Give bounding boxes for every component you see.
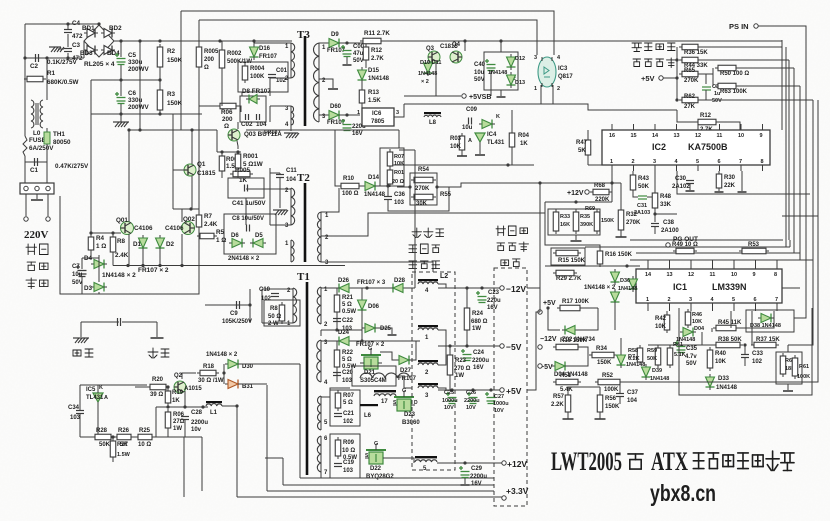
wire T3 rp base (318, 43, 320, 122)
wire R12 dn (365, 60, 367, 68)
winding L2-1 (418, 328, 438, 330)
label ya shuchu (497, 242, 529, 252)
svg-text:IC3: IC3 (558, 66, 568, 72)
svg-text:1W: 1W (173, 426, 182, 432)
inductor L6 (360, 373, 410, 378)
resistor R50 (715, 65, 739, 71)
capacitor C37 (616, 394, 624, 397)
wire D22 out (387, 458, 414, 463)
ground R60 (783, 390, 793, 392)
resistor R11 (360, 38, 384, 44)
wire IC5 top row (98, 384, 147, 386)
wire z02 bus (614, 305, 616, 330)
svg-text:B31: B31 (242, 384, 254, 390)
svg-text:R1: R1 (47, 70, 56, 77)
wire R48 dn (654, 208, 656, 222)
svg-text:D22: D22 (370, 466, 382, 472)
wire T1 pin7 down (320, 472, 322, 478)
diode BD3 (84, 46, 98, 55)
svg-text:C28: C28 (191, 410, 203, 416)
ground C11 (273, 210, 288, 215)
wire reg bus (676, 47, 678, 100)
wire r60 dn (787, 384, 789, 390)
svg-text:D15: D15 (368, 68, 380, 74)
wire y407 row (156, 406, 208, 408)
wire R21 col (336, 288, 338, 330)
wire C5 bot (120, 65, 122, 80)
svg-text:104: 104 (286, 177, 297, 183)
ground R57 (563, 418, 574, 420)
pin IC1-13 (669, 260, 671, 269)
resistor R06b (165, 409, 171, 431)
capacitor C04 (341, 119, 352, 131)
svg-text:D1: D1 (133, 241, 142, 248)
transistor Q02 (182, 222, 195, 235)
svg-text:D14: D14 (368, 175, 380, 181)
capacitor C11 (276, 175, 284, 178)
pin IC1-9 (755, 260, 757, 269)
wire y209 row (173, 208, 199, 210)
resistor R04 (509, 130, 515, 150)
wire Q3 e dn (435, 63, 437, 96)
wire T3 lp base (290, 43, 292, 78)
svg-text:R52: R52 (602, 373, 614, 379)
svg-text:104: 104 (256, 121, 267, 128)
wire bus v5 (799, 253, 801, 260)
wire D60 out (342, 114, 360, 116)
svg-text:D13: D13 (515, 80, 525, 86)
svg-text:C5: C5 (128, 52, 137, 59)
diode D33 (706, 374, 715, 390)
svg-text:1.5W: 1.5W (117, 452, 131, 458)
node C36 (386, 184, 389, 187)
wire R1 left (24, 58, 26, 100)
svg-text:Ω: Ω (224, 123, 229, 130)
resistor R002 (219, 47, 225, 71)
svg-text:R13: R13 (368, 90, 380, 96)
label zhiliu dian (496, 226, 528, 236)
svg-text:R01: R01 (394, 170, 404, 176)
box comparator network (679, 308, 812, 395)
diode D1 (139, 235, 148, 251)
capacitor C38 (651, 224, 659, 227)
wire C9-T1 (249, 289, 251, 323)
svg-text:2.7K: 2.7K (371, 56, 384, 62)
wire feedback line A (181, 11, 554, 55)
svg-text:+5V: +5V (641, 74, 655, 83)
wire R23 up (449, 346, 451, 355)
svg-text:R45 11K: R45 11K (718, 320, 742, 326)
wire R68 out (609, 191, 612, 193)
svg-text:D36: D36 (620, 278, 630, 284)
wire div gnd (575, 235, 577, 240)
wire C38 dn (654, 227, 656, 234)
terminal AC N (46, 217, 50, 221)
svg-text:R30: R30 (724, 175, 736, 181)
svg-text:R57: R57 (553, 394, 565, 400)
wire box left link (397, 186, 410, 188)
svg-text:ybx8.cn: ybx8.cn (650, 480, 716, 506)
resistor R33 (553, 209, 559, 234)
svg-text:R26: R26 (118, 428, 130, 434)
wire C2 row (25, 57, 84, 59)
svg-text:5: 5 (732, 297, 735, 303)
wire C5 lead (120, 41, 122, 57)
pin IC1-2b (669, 303, 671, 311)
terminal PS IN (754, 24, 758, 28)
wire C4 (67, 24, 69, 29)
wire D24 out (352, 340, 420, 342)
ground R56 (595, 418, 606, 420)
capacitor C3 (64, 49, 72, 52)
diode D30 (225, 360, 241, 369)
resistor R16 (597, 248, 603, 267)
wire D25 in (361, 328, 363, 341)
wire R002 dn (221, 68, 223, 106)
core L0 a (35, 103, 37, 125)
wire gnd stub (120, 114, 122, 122)
box R07 (330, 390, 360, 426)
capacitor C04b (257, 114, 260, 120)
inductor L1 (206, 404, 222, 406)
wire C29 dn (464, 478, 466, 484)
node R27 top (111, 435, 114, 438)
wire c36 return (388, 187, 449, 211)
wire T2 rp base (320, 212, 322, 262)
core L2e (415, 456, 437, 458)
svg-text:5 Ω: 5 Ω (343, 400, 353, 406)
svg-text:L8: L8 (429, 120, 437, 126)
winding T3 p2 (291, 106, 294, 125)
resistor R52 (595, 379, 623, 385)
wire T1 s3 base (320, 396, 322, 430)
resistor R63 (715, 83, 739, 89)
capacitor C7 (76, 265, 87, 277)
svg-text:100 Ω: 100 Ω (342, 191, 359, 197)
svg-text:R50 100 Ω: R50 100 Ω (720, 71, 749, 77)
wire conn gnd (36, 194, 38, 199)
resistor R27 (110, 438, 116, 460)
node c25 (450, 388, 453, 391)
wire L2-2 join (438, 346, 446, 365)
resistor R8 (110, 234, 116, 255)
svg-text:BYQ28G2: BYQ28G2 (366, 474, 394, 480)
svg-text:1K: 1K (172, 398, 180, 404)
svg-text:103: 103 (342, 378, 353, 384)
wire T3 pin3 drop (269, 106, 271, 122)
diode BD2 (101, 29, 115, 38)
thermistor TH1 lead (46, 128, 48, 132)
svg-text:1W: 1W (455, 373, 464, 379)
label shuru (27, 262, 48, 270)
terminal PG OUT (666, 243, 670, 247)
svg-text:1N4148: 1N4148 (650, 376, 669, 382)
core L2c (418, 360, 438, 362)
capacitor C01 (268, 75, 276, 78)
svg-text:100K: 100K (250, 74, 265, 80)
winding L2-3 (418, 386, 438, 388)
wire R002 up (221, 41, 223, 50)
wire rail drop x140 (139, 41, 141, 130)
svg-text:5 Ω: 5 Ω (342, 357, 352, 363)
pin IC1-7b (776, 303, 778, 311)
pin IC1-10 (733, 260, 735, 269)
wire R32 up (620, 183, 622, 210)
diode D28 (390, 284, 406, 293)
svg-text:16: 16 (609, 133, 615, 139)
svg-text:T3: T3 (297, 29, 310, 41)
wire R06 to Q03 base (239, 106, 241, 112)
svg-text:10K: 10K (715, 359, 727, 365)
wire Q02 e down (181, 234, 183, 266)
wire R17 loop (548, 308, 560, 330)
svg-text:R09: R09 (343, 440, 355, 446)
pin IC1-3b (690, 303, 692, 311)
wire Q2 e dn (184, 391, 186, 407)
resistor R46 (685, 309, 691, 328)
wire R47 up (587, 130, 589, 140)
svg-text:C10: C10 (259, 287, 271, 293)
svg-text:R002: R002 (227, 51, 242, 57)
wire 5vsb (404, 95, 461, 97)
svg-text:A1015: A1015 (184, 386, 202, 392)
wire C30 dn (689, 184, 691, 190)
wire s1 top (321, 287, 336, 289)
winding T1 s4 (317, 436, 321, 472)
node r17 (546, 306, 549, 309)
svg-text:R38 50K: R38 50K (718, 337, 742, 343)
svg-text:39 Ω: 39 Ω (150, 392, 163, 398)
core T2 (304, 183, 307, 262)
svg-text:D6: D6 (231, 233, 239, 239)
wire D28 out (406, 287, 415, 289)
svg-text:2.4K: 2.4K (115, 252, 129, 259)
wire C36 up (387, 186, 389, 196)
resistor R21 (334, 292, 340, 315)
wire r57 dn (567, 412, 569, 419)
svg-text:Q4: Q4 (452, 42, 461, 48)
wire R12b out (719, 122, 740, 130)
wire T3 pin2 out (270, 78, 291, 96)
wire D2 down (159, 251, 161, 266)
svg-text:C35: C35 (686, 346, 698, 352)
wire conn N (47, 194, 49, 216)
diode D24 (336, 337, 352, 346)
capacitor C34 (76, 411, 84, 414)
svg-text:16V: 16V (471, 481, 482, 487)
resistor R20 (147, 384, 169, 390)
diode D8 (246, 95, 260, 104)
diode D9 (326, 39, 342, 48)
svg-text:1N4148: 1N4148 (364, 192, 386, 198)
wire rail to Q (384, 40, 465, 42)
pin IC2-9 (762, 124, 764, 130)
capacitor C24 (461, 349, 472, 361)
svg-text:TH1: TH1 (53, 131, 65, 138)
wire c35 row (648, 344, 710, 346)
node y266 (625, 264, 628, 267)
node c27 (489, 388, 492, 391)
svg-text:R51: R51 (560, 373, 572, 379)
node y209 a (189, 207, 192, 210)
node C38 top (653, 212, 656, 215)
diode D4 (91, 260, 107, 269)
wire T1 s4 base (320, 436, 322, 472)
svg-text:C30: C30 (675, 176, 687, 182)
svg-text:270K: 270K (626, 220, 641, 226)
wire x199 low (198, 227, 200, 274)
op-amp IC2 KA7500B (602, 130, 770, 165)
svg-text:103: 103 (343, 468, 354, 474)
wire r57 up (567, 387, 569, 395)
resistor R47 (585, 137, 591, 158)
resistor R24 (464, 305, 470, 333)
ground hot (73, 338, 89, 343)
wire bus v8 (648, 100, 818, 382)
diode D15 (358, 67, 367, 83)
wire R2-R3 (159, 67, 161, 90)
svg-text:D: D (414, 400, 418, 406)
svg-text:R47: R47 (576, 140, 588, 146)
terminal -12V (500, 286, 504, 290)
svg-text:Q01: Q01 (116, 217, 128, 224)
node mid R (158, 78, 161, 81)
svg-text:R58: R58 (628, 348, 638, 354)
wire AC left column (24, 24, 26, 136)
svg-text:R24: R24 (472, 311, 484, 317)
wire bus v4 (793, 247, 795, 253)
svg-text:+12V: +12V (507, 459, 527, 469)
svg-text:3: 3 (396, 110, 399, 116)
capacitor C20 (333, 373, 341, 376)
svg-text:47u: 47u (353, 51, 364, 57)
wire y104 run (404, 104, 630, 110)
pin IC2-2 (633, 165, 635, 171)
wire T2s pin3 out (321, 262, 433, 272)
svg-text:R10: R10 (343, 176, 355, 182)
svg-text:R36 15K: R36 15K (684, 50, 708, 56)
svg-text:12: 12 (695, 133, 701, 139)
wire R63 out (739, 85, 800, 87)
label redi (73, 349, 93, 357)
pin IC2-12 (697, 124, 699, 130)
wire R10 feed (335, 130, 338, 186)
pin IC1-4b (712, 303, 714, 311)
svg-text:2.2K: 2.2K (551, 402, 564, 408)
IC IC5 TL431 (93, 393, 103, 402)
terminal -12Vb (538, 345, 542, 349)
wire bus row c (630, 259, 813, 261)
node ret a (126, 264, 129, 267)
node R54 right (435, 185, 438, 188)
svg-text:+5VSB: +5VSB (469, 94, 491, 101)
svg-text:+12V: +12V (567, 190, 584, 197)
svg-text:1N4148: 1N4148 (368, 76, 390, 82)
capacitor C02 (246, 114, 249, 120)
node mid C (119, 78, 122, 81)
svg-text:R16 150K: R16 150K (560, 338, 588, 344)
wire feedback line B (199, 20, 537, 55)
wire R50R63 in (712, 68, 714, 86)
wire C11 top (270, 172, 280, 174)
wire r38 link (702, 332, 713, 345)
wire C7 up (81, 258, 83, 269)
svg-text:14: 14 (652, 133, 659, 139)
svg-text:R11 2.7K: R11 2.7K (364, 30, 390, 37)
capacitor C26 (467, 392, 478, 404)
svg-text:3: 3 (534, 55, 537, 61)
svg-text:D5: D5 (255, 233, 263, 239)
terminal +5VSB (462, 94, 466, 98)
wire x283 drop (282, 458, 284, 485)
svg-text:150K: 150K (167, 57, 183, 64)
svg-text:6: 6 (718, 159, 721, 165)
node r24 top (465, 286, 468, 289)
node c23 (480, 286, 483, 289)
capacitor C39 (702, 87, 711, 90)
svg-text:2N4148 × 2: 2N4148 × 2 (228, 256, 260, 262)
wire z02 out (578, 308, 598, 330)
svg-text:C8 10u/50V: C8 10u/50V (232, 216, 264, 222)
wire r5657 row (568, 386, 600, 388)
wire d30 col (223, 364, 225, 384)
box R54 (410, 173, 437, 205)
svg-text:10V: 10V (444, 405, 454, 411)
wire D1 down (142, 251, 144, 266)
wire C11 dn (279, 178, 281, 208)
wire x540 bus (539, 183, 541, 312)
svg-text:× 2: × 2 (421, 79, 429, 85)
svg-text:1: 1 (646, 297, 649, 303)
svg-text:R56: R56 (605, 396, 617, 402)
svg-text:1: 1 (357, 110, 360, 116)
resistor R43 (630, 172, 636, 193)
diode D10b (479, 120, 495, 129)
wire s2 top (321, 340, 336, 342)
winding T1 s1 (317, 287, 321, 324)
node reg b (675, 76, 678, 79)
diode D36 (629, 276, 638, 292)
capacitor C1 (35, 158, 38, 166)
wire ic1 drop3 (730, 311, 732, 328)
svg-text:5 Ω: 5 Ω (342, 302, 352, 308)
wire L1 out (222, 405, 237, 407)
wire R001 down (237, 168, 239, 178)
diode D25 (362, 324, 378, 333)
svg-text:1 Ω: 1 Ω (216, 237, 226, 244)
node R20-R19 (166, 385, 169, 388)
svg-text:2 W: 2 W (268, 321, 279, 327)
svg-text:10v: 10v (191, 427, 202, 433)
svg-text:50V: 50V (474, 77, 485, 83)
svg-text:R001: R001 (243, 153, 259, 160)
node C2 left (23, 56, 26, 59)
core L7 (374, 390, 396, 392)
svg-text:27K: 27K (684, 104, 696, 110)
wire D25 tail (378, 328, 392, 334)
node Q1 c (190, 128, 193, 131)
resistor R003 (219, 153, 225, 174)
resistor R56 (597, 392, 603, 415)
svg-text:IC6: IC6 (372, 111, 382, 117)
svg-text:220u: 220u (487, 298, 501, 304)
wire IC5 k up (97, 385, 99, 393)
svg-text:8: 8 (761, 159, 764, 165)
wire left box B down (198, 20, 200, 106)
wire T1 pin1 out (262, 322, 293, 324)
svg-text:10V: 10V (494, 408, 504, 414)
box D8 snubber (240, 96, 266, 122)
